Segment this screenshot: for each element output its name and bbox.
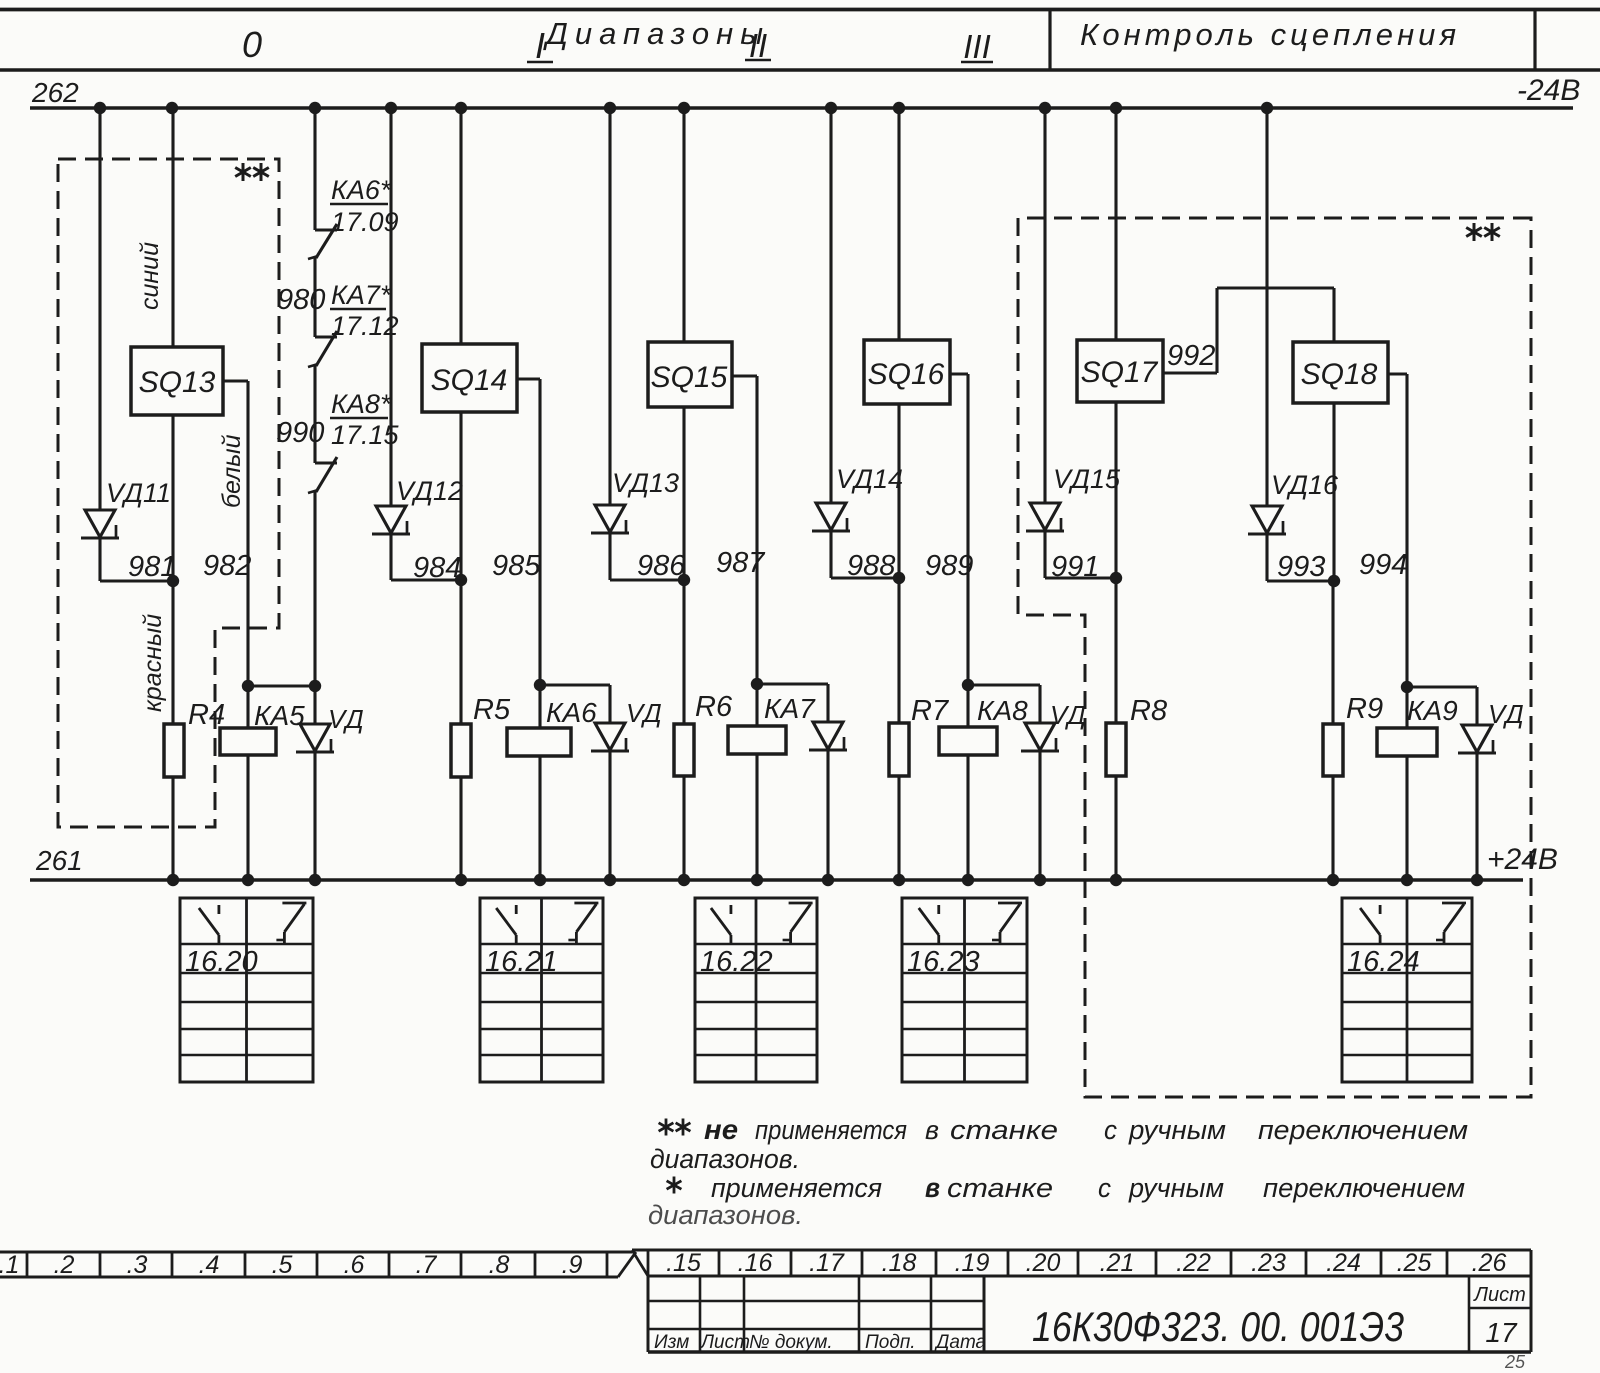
wire: bus to SQ13 (siniy) (171, 108, 174, 347)
junction KA9 top (1401, 681, 1413, 693)
wire: KA8 to +24V bus (966, 755, 969, 880)
svg-text:.16: .16 (738, 1249, 773, 1277)
wire: bus to VD12 anode (389, 108, 392, 506)
wire: bus to contact KA6 (313, 108, 316, 230)
contact KA7* (17.12) (315, 335, 337, 338)
svg-text:VД: VД (1050, 700, 1086, 730)
svg-text:.26: .26 (1472, 1249, 1507, 1277)
wire: node 993 down to R9 (1331, 581, 1334, 724)
svg-text:R9: R9 (1346, 693, 1383, 725)
wire: node 988 down to R7 (897, 578, 900, 723)
svg-text:SQ17: SQ17 (1081, 356, 1159, 389)
contact table 16.23 (KA8) (902, 898, 1027, 1082)
svg-text:.8: .8 (489, 1251, 510, 1279)
junction on -24V bus to VD13 branch (604, 102, 616, 114)
wire: bus to VD15 anode (1043, 108, 1046, 503)
junction KA5 on +24V bus (242, 874, 254, 886)
svg-text:.24: .24 (1326, 1249, 1361, 1277)
svg-text:985: 985 (492, 550, 541, 582)
svg-text:белый: белый (218, 434, 246, 508)
wire: SQ16 bottom to node 988 (897, 404, 900, 578)
contact table 16.22 (KA7) (695, 898, 817, 1082)
svg-text:VД: VД (1488, 699, 1524, 729)
svg-text:994: 994 (1359, 549, 1407, 581)
junction on -24V bus to VD16 branch (1261, 102, 1273, 114)
relay coil KA8 (966, 685, 969, 727)
junction KA9 on +24V bus (1401, 874, 1413, 886)
svg-text:R5: R5 (473, 694, 511, 726)
svg-text:.1: .1 (0, 1251, 19, 1279)
contact table 16.20 (KA5) (180, 898, 313, 1082)
svg-text:VД11: VД11 (106, 478, 171, 508)
junction KA8 top (962, 679, 974, 691)
svg-text:988: 988 (847, 550, 895, 582)
wire: KA5 to +24V bus (246, 755, 249, 880)
svg-text:КА7*: КА7* (331, 280, 392, 310)
svg-text:990: 990 (276, 417, 324, 449)
junction R5 on +24V bus (455, 874, 467, 886)
resistor R8 (1106, 723, 1126, 776)
svg-text:Лист: Лист (699, 1332, 750, 1353)
footnote line 4 (648, 1200, 803, 1230)
svg-text:261: 261 (35, 845, 83, 876)
junction KA5 top (242, 680, 254, 692)
svg-text:.20: .20 (1026, 1249, 1061, 1277)
junction VD-KA5 top (309, 680, 321, 692)
diode VD16 (1252, 506, 1282, 533)
svg-text:VД12: VД12 (396, 476, 463, 506)
svg-text:.7: .7 (416, 1251, 438, 1279)
svg-text:17.12: 17.12 (331, 311, 399, 341)
stray pencil mark 25 (1504, 1352, 1526, 1372)
resistor R6 (674, 724, 694, 776)
junction node 981/982 (167, 575, 179, 587)
svg-text:17: 17 (1485, 1317, 1518, 1348)
svg-text:.21: .21 (1100, 1249, 1135, 1277)
junction KA7 on +24V bus (751, 874, 763, 886)
junction on -24V bus to VD14 branch (825, 102, 837, 114)
svg-text:III: III (963, 28, 991, 65)
switch SQ16 (864, 340, 950, 404)
svg-text:КА5: КА5 (254, 700, 305, 731)
wire: SQ13 bottom to node 982 (171, 415, 174, 581)
junction VD(KA8) on +24V bus (1034, 874, 1046, 886)
wire: SQ18 bottom to node 993 (1332, 403, 1335, 581)
wire: KA8 parallel link (968, 683, 1040, 686)
switch SQ18 (1293, 342, 1388, 403)
footnote marker ** (659, 1119, 674, 1136)
svg-text:.19: .19 (955, 1249, 990, 1277)
wire: R5 to +24V bus (459, 777, 462, 880)
junction node 988 (893, 572, 905, 584)
diode VD15 (1030, 503, 1060, 530)
junction KA6 on +24V bus (534, 874, 546, 886)
wire: VD14 cathode to node 988 (829, 531, 832, 578)
svg-text:не: не (704, 1114, 738, 1145)
switch SQ14 (422, 344, 517, 412)
svg-text:16К30Ф323. 00. 001Э3: 16К30Ф323. 00. 001Э3 (1032, 1303, 1404, 1350)
wire: KA9 to +24V bus (1405, 756, 1408, 880)
junction VD(KA9) on +24V bus (1471, 874, 1483, 886)
svg-text:25: 25 (1504, 1352, 1526, 1368)
wire: bus to SQ16 (897, 108, 900, 340)
svg-text:-24В: -24В (1517, 74, 1580, 107)
wire: node 982 down to R4 (krasnyj) (171, 581, 174, 724)
title block frame (647, 1276, 650, 1352)
svg-text:КА7: КА7 (764, 693, 816, 724)
svg-text:Подп.: Подп. (865, 1332, 916, 1353)
wire: VD12 cathode to node 984 (389, 534, 392, 580)
header divider right (1533, 9, 1536, 70)
junction node 986 (678, 574, 690, 586)
svg-text:16.23: 16.23 (907, 946, 980, 978)
svg-text:991: 991 (1051, 551, 1099, 583)
resistor R5 (451, 724, 471, 777)
svg-text:262: 262 (31, 77, 79, 108)
switch SQ17 (1077, 340, 1163, 402)
relay coil KA9 (1405, 687, 1408, 728)
svg-text:VД13: VД13 (612, 468, 679, 498)
svg-text:в: в (925, 1172, 940, 1203)
wire: node 984 down to R5 (459, 580, 462, 724)
diode VD (KA5 group) (313, 686, 316, 724)
svg-text:987: 987 (716, 547, 766, 579)
svg-text:SQ16: SQ16 (868, 358, 945, 391)
svg-text:980: 980 (277, 284, 325, 316)
junction node 993 (1328, 575, 1340, 587)
svg-text:применяется: применяется (755, 1115, 907, 1145)
wire: SQ13 output stub (belyj) (223, 379, 248, 382)
wire: node 986 down to R6 (682, 580, 685, 724)
wire: bus to VD11 anode (98, 108, 101, 510)
svg-text:Дата: Дата (934, 1332, 986, 1353)
svg-text:КА6: КА6 (546, 697, 597, 728)
svg-text:переключением: переключением (1263, 1173, 1465, 1203)
junction R8 on +24V bus (1110, 874, 1122, 886)
wire: SQ14 bottom to node 984 (459, 412, 462, 580)
svg-text:КА9: КА9 (1407, 695, 1458, 726)
svg-text:17.15: 17.15 (331, 420, 400, 450)
wire: SQ15 bottom to node 986 (682, 407, 685, 580)
svg-text:синий: синий (136, 242, 164, 310)
svg-text:КА8*: КА8* (331, 389, 392, 419)
wire: VD(KA8) to +24V bus (1038, 751, 1041, 880)
resistor R7 (889, 723, 909, 776)
wire: bus to VD16 anode (1265, 108, 1268, 506)
svg-text:16.21: 16.21 (485, 946, 558, 978)
junction on -24V bus to SQ17 branch (1110, 102, 1122, 114)
svg-text:993: 993 (1277, 551, 1325, 583)
junction on -24V bus to KA6 contact chain branch (309, 102, 321, 114)
svg-text:SQ14: SQ14 (431, 364, 508, 397)
junction R6 on +24V bus (678, 874, 690, 886)
wire: bus to SQ17 (1114, 108, 1117, 340)
wire: R8 to +24V bus (1114, 776, 1117, 880)
wire: contact KA8 down to VD junction (313, 492, 316, 686)
svg-text:II: II (749, 27, 767, 64)
svg-text:Диапазоны: Диапазоны (543, 16, 767, 51)
svg-text:17.09: 17.09 (331, 207, 399, 237)
wire: bus to SQ15 (682, 108, 685, 342)
svg-text:переключением: переключением (1258, 1115, 1468, 1145)
junction on -24V bus to VD15 branch (1039, 102, 1051, 114)
svg-text:Лист: Лист (1472, 1284, 1526, 1306)
diode VD11 (85, 510, 115, 537)
wire: SQ17 bottom to node 991 (1114, 402, 1117, 578)
svg-text:ручным: ручным (1128, 1115, 1226, 1145)
wire: KA9 parallel link (1407, 685, 1477, 688)
svg-text:.6: .6 (344, 1251, 365, 1279)
wire: VD15 cathode to node 991 (1043, 531, 1046, 578)
wire: contact KA7 to contact KA8, node 990 (313, 366, 316, 463)
dashed option box right (**) (1018, 218, 1531, 1097)
svg-text:R6: R6 (695, 691, 733, 723)
sheet cell divider (1468, 1276, 1471, 1352)
wire: KA6 parallel link (540, 683, 610, 686)
wire: KA7 parallel link (757, 682, 828, 685)
junction KA6 top (534, 679, 546, 691)
svg-text:.5: .5 (272, 1251, 293, 1279)
svg-text:№ докум.: № докум. (749, 1332, 833, 1353)
footnote marker * (667, 1177, 682, 1194)
header band bottom rule (0, 68, 1600, 72)
reference strip cells .1-.9 (0, 1251, 632, 1254)
svg-text:КА6*: КА6* (331, 175, 392, 205)
wire: SQ15 output, node 987 (732, 374, 757, 377)
wire: bottom bus +24V net 261 (30, 878, 1523, 882)
wire: SQ16 output, node 989 (950, 372, 968, 375)
wire: SQ18 output, node 994 (1388, 372, 1407, 375)
svg-text:0: 0 (242, 24, 262, 65)
svg-text:.15: .15 (666, 1249, 701, 1277)
svg-text:.17: .17 (809, 1249, 845, 1277)
junction VD(KA6) on +24V bus (604, 874, 616, 886)
junction on -24V bus to SQ13 branch (166, 102, 178, 114)
svg-text:989: 989 (925, 550, 973, 582)
svg-text:16.20: 16.20 (185, 946, 258, 978)
svg-text:.22: .22 (1176, 1249, 1211, 1277)
wire: VD11 cathode down (98, 538, 101, 581)
svg-text:станке: станке (947, 1173, 1053, 1203)
svg-text:VД: VД (328, 704, 364, 734)
junction node 984 (455, 574, 467, 586)
junction R9 on +24V bus (1327, 874, 1339, 886)
svg-text:984: 984 (413, 552, 461, 584)
svg-text:I: I (535, 25, 545, 66)
contact KA6* (17.09) (315, 228, 337, 231)
wire: bus to VD13 anode (608, 108, 611, 505)
wire: bus to VD14 anode (829, 108, 832, 503)
wire: R9 to +24V bus (1331, 776, 1334, 880)
junction on -24V bus to SQ15 branch (678, 102, 690, 114)
switch SQ15 (648, 342, 732, 407)
wire: KA5 parallel link (248, 684, 315, 687)
wire: SQ14 output, node 985 (517, 377, 540, 380)
diode VD13 (595, 505, 625, 532)
wire: VD(KA9) to +24V bus (1475, 753, 1478, 880)
wire: VD16 cathode to node 993 (1265, 534, 1268, 581)
resistor R4 (164, 724, 184, 777)
wire: bus to SQ14 (459, 108, 462, 344)
diode VD (KA7 group, unlabeled) (826, 684, 829, 722)
left box asterisks ** (235, 163, 251, 181)
wire: SQ17 output node 992 to SQ18 feed (1163, 371, 1217, 374)
svg-text:.25: .25 (1397, 1249, 1432, 1277)
junction VD(KA5) on +24V bus (309, 874, 321, 886)
contact table 16.21 (KA6) (480, 898, 603, 1082)
svg-text:VД15: VД15 (1053, 464, 1121, 494)
junction R4 on +24V bus (167, 874, 179, 886)
junction on -24V bus to VD12 branch (385, 102, 397, 114)
svg-text:диапазонов.: диапазонов. (650, 1144, 800, 1174)
wire: R7 to +24V bus (897, 776, 900, 880)
svg-text:R8: R8 (1130, 695, 1167, 727)
wire: contact KA6 to contact KA7, node 980 (313, 258, 316, 337)
svg-text:с: с (1104, 1115, 1117, 1145)
svg-text:КА8: КА8 (977, 695, 1028, 726)
svg-text:VД16: VД16 (1271, 470, 1339, 500)
switch SQ13 (131, 347, 223, 415)
junction KA7 top (751, 678, 763, 690)
svg-text:VД: VД (626, 698, 662, 728)
svg-text:16.22: 16.22 (700, 946, 773, 978)
svg-text:.2: .2 (54, 1251, 75, 1279)
junction on -24V bus to SQ16 branch (893, 102, 905, 114)
diode VD14 (816, 503, 846, 530)
svg-text:красный: красный (139, 614, 167, 712)
svg-text:станке: станке (950, 1115, 1058, 1145)
wire: node 991 down to R8 (1114, 578, 1117, 723)
header divider at Kontrol cell (1048, 9, 1051, 70)
relay coil KA5 (246, 686, 249, 728)
svg-text:с: с (1098, 1173, 1111, 1203)
wire: KA7 to +24V bus (755, 754, 758, 880)
wire: KA6 to +24V bus (538, 756, 541, 880)
header band top rule (0, 8, 1600, 12)
diode VD12 (376, 506, 406, 533)
wire: top bus -24V net 262 (30, 106, 1573, 110)
diode VD (KA8 group) (1038, 685, 1041, 723)
diode VD (KA9 group) (1475, 687, 1478, 725)
junction on -24V bus to VD11 branch (94, 102, 106, 114)
svg-text:Изм: Изм (654, 1332, 689, 1353)
resistor R9 (1323, 724, 1343, 776)
svg-text:диапазонов.: диапазонов. (648, 1200, 803, 1230)
svg-text:применяется: применяется (711, 1173, 882, 1203)
svg-text:16.24: 16.24 (1347, 946, 1420, 978)
svg-text:.3: .3 (127, 1251, 148, 1279)
svg-text:ручным: ручным (1128, 1173, 1224, 1203)
svg-text:.18: .18 (882, 1249, 917, 1277)
svg-text:.23: .23 (1251, 1249, 1286, 1277)
junction KA8 on +24V bus (962, 874, 974, 886)
svg-text:+24В: +24В (1487, 843, 1558, 876)
relay coil KA7 (755, 684, 758, 726)
svg-text:.4: .4 (199, 1251, 220, 1279)
wire: VD(KA6) to +24V bus (608, 751, 611, 880)
junction node 991 (1110, 572, 1122, 584)
svg-text:в: в (925, 1115, 939, 1145)
svg-text:992: 992 (1167, 340, 1215, 372)
contact KA8* (17.15) (315, 461, 337, 464)
svg-text:SQ13: SQ13 (139, 366, 216, 399)
contact table 16.24 (KA9) (1342, 898, 1472, 1082)
junction VD(KA7) on +24V bus (822, 874, 834, 886)
wire: R4 to +24V bus (171, 777, 174, 880)
wire: node 981 horizontal (100, 579, 173, 582)
svg-text:VД14: VД14 (836, 464, 903, 494)
title block revision sub-table (983, 1276, 986, 1352)
svg-text:.9: .9 (562, 1251, 583, 1279)
svg-text:SQ18: SQ18 (1301, 358, 1378, 391)
relay coil KA6 (538, 685, 541, 728)
dashed option box left (**) (58, 159, 279, 827)
svg-text:982: 982 (203, 550, 251, 582)
wire: R6 to +24V bus (682, 776, 685, 880)
wire: VD to +24V bus (313, 752, 316, 880)
junction R7 on +24V bus (893, 874, 905, 886)
svg-text:R4: R4 (188, 699, 225, 731)
wire: VD13 cathode to node 986 (608, 533, 611, 580)
wire: VD(KA7) to +24V bus (826, 750, 829, 880)
diode VD (KA6 group) (608, 685, 611, 723)
reference strip cells .15-.26 (632, 1249, 1531, 1252)
junction on -24V bus to SQ14 branch (455, 102, 467, 114)
svg-text:R7: R7 (911, 695, 950, 727)
right box asterisks ** (1466, 223, 1482, 241)
svg-text:SQ15: SQ15 (651, 361, 728, 394)
